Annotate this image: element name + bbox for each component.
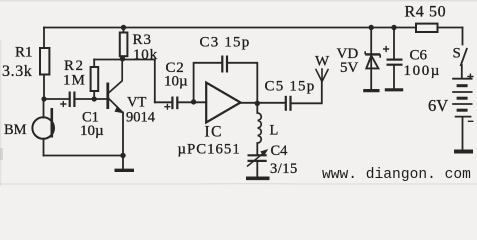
junction dot collector/R3/R2 [120, 56, 125, 61]
wire node A to mic top [43, 99, 45, 118]
ground (C6) [385, 88, 403, 91]
junction dot R3 top [121, 25, 126, 30]
wire C1 row [44, 98, 106, 100]
wire IC output row [241, 102, 286, 104]
wire top rail VCC [44, 27, 463, 29]
wire switch drop [462, 28, 464, 45]
svg-text:10k: 10k [133, 47, 158, 63]
svg-text:L: L [270, 123, 279, 139]
inductor L [258, 113, 262, 143]
svg-text:www. diangon. com: www. diangon. com [322, 167, 471, 183]
ground (C4) [246, 177, 270, 181]
svg-text:W: W [315, 53, 330, 69]
svg-text:3/15: 3/15 [270, 161, 298, 177]
op-amp IC U1 triangle [206, 83, 240, 123]
svg-text:IC: IC [205, 123, 224, 140]
wire VD through and bottom lead [370, 54, 372, 89]
wire switch to battery [461, 65, 463, 78]
resistor R1 [40, 48, 49, 75]
svg-text:9014: 9014 [126, 110, 156, 126]
wire C5 to antenna corner [291, 82, 321, 104]
wire C4 bottom to ground [256, 161, 258, 177]
wire VD top lead [370, 28, 372, 55]
junction dot R2/C1/base [92, 96, 97, 101]
svg-text:C3 15p: C3 15p [200, 34, 251, 50]
node A junction dot R1/C1 [41, 96, 46, 101]
wire C3 feedback loop [194, 63, 258, 104]
wire R1 bottom lead to node A [43, 75, 45, 100]
wire L bottom to C4 [256, 143, 258, 155]
wire C6 bottom lead [393, 66, 395, 89]
wire left rail [43, 28, 45, 49]
svg-text:R4 50: R4 50 [405, 4, 447, 21]
wire R3 bottom lead [122, 56, 124, 59]
wire C2 to IC input [178, 101, 206, 103]
wire L top lead [256, 103, 258, 113]
transistor VT [108, 59, 123, 113]
svg-text:C4: C4 [271, 143, 289, 159]
wire R2 top lead [93, 60, 95, 68]
junction dot VD top [369, 25, 374, 30]
wire mic bottom to bottom rail [43, 139, 45, 156]
scan edge top [0, 0, 477, 2]
wire C2 row left [155, 101, 172, 103]
svg-text:BM: BM [4, 122, 27, 138]
wire emitter to bottom node [122, 113, 124, 156]
zener diode VD [365, 51, 380, 68]
svg-text:C6: C6 [410, 48, 428, 64]
capacitor C5 [286, 96, 291, 111]
svg-text:R3: R3 [133, 32, 153, 48]
switch S blade [461, 49, 467, 65]
wire mid rail collector row [94, 59, 155, 61]
resistor R3 [120, 33, 128, 57]
microphone BM [32, 108, 54, 139]
wire bottom rail [44, 155, 124, 157]
svg-text:10µ: 10µ [80, 123, 104, 139]
ground (VD) [363, 89, 379, 92]
wire C6 top lead [393, 28, 395, 59]
wire battery bottom lead [462, 117, 464, 150]
capacitor C1 [60, 92, 74, 108]
battery 6V [452, 74, 473, 122]
wire bottom node ground stub [122, 156, 124, 169]
svg-text:R1: R1 [15, 45, 33, 61]
capacitor C3 [222, 56, 227, 73]
svg-text:µPC1651: µPC1651 [178, 142, 241, 158]
ground (battery) [454, 150, 473, 154]
svg-text:100µ: 100µ [404, 63, 442, 79]
wire C2 drop [154, 60, 156, 103]
antenna W [316, 68, 329, 81]
svg-text:R2: R2 [64, 58, 85, 74]
resistor R4 [416, 24, 438, 32]
junction dot IC output [255, 101, 260, 106]
svg-text:1M: 1M [63, 73, 86, 89]
scan smudge left [0, 148, 3, 160]
wire R2 bottom lead [93, 91, 95, 99]
scan edge left [0, 40, 2, 186]
svg-text:5V: 5V [340, 60, 359, 76]
svg-text:6V: 6V [428, 96, 448, 115]
scan edge bottom [0, 183, 477, 185]
junction dot IC input [191, 99, 196, 104]
ground (emitter) [115, 169, 135, 172]
junction dot emitter/bottom rail [120, 153, 125, 158]
svg-text:VT: VT [127, 95, 146, 111]
resistor R2 [91, 67, 99, 91]
wire R3 top lead [123, 28, 125, 33]
capacitor C2 [164, 97, 177, 110]
svg-text:3.3k: 3.3k [2, 63, 32, 80]
capacitor C6 [383, 46, 403, 65]
variable capacitor C4 [247, 150, 267, 167]
junction dot C6 top [391, 25, 396, 30]
svg-text:10µ: 10µ [164, 74, 188, 90]
svg-text:C5 15p: C5 15p [265, 78, 316, 94]
svg-text:S: S [453, 45, 461, 61]
